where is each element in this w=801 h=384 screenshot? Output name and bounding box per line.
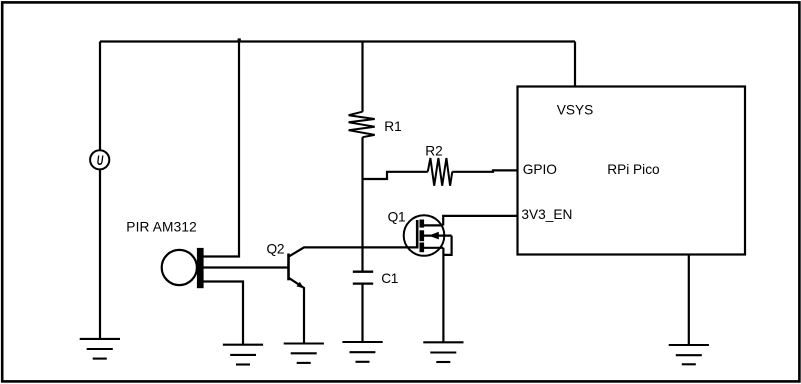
svg-text:U: U — [97, 153, 104, 168]
wire Q2 emitter down to ground — [289, 278, 305, 344]
wire Q1 bulk hook to source — [443, 236, 451, 255]
wire rail to R1 top — [361, 42, 363, 112]
ground G4 (below C1) — [342, 342, 382, 362]
resistor R1 — [349, 112, 375, 138]
wire PIR OUT (middle pin to Q2 base) — [204, 266, 289, 268]
svg-text:PIR AM312: PIR AM312 — [126, 219, 197, 234]
wire PIR VCC (top pin up to rail) — [204, 42, 240, 257]
svg-text:VSYS: VSYS — [557, 102, 594, 117]
ground G3 (below Q2 emitter) — [284, 344, 324, 363]
transistor Q2 base bar — [287, 254, 290, 281]
svg-text:Q2: Q2 — [267, 242, 285, 257]
wire Q1 source down to ground — [442, 248, 444, 342]
svg-text:3V3_EN: 3V3_EN — [521, 207, 572, 222]
resistor R2 — [428, 158, 453, 186]
ground G2 (below PIR) — [223, 345, 263, 365]
node junction at x=239 on top rail — [238, 38, 241, 41]
RPi Pico box — [518, 87, 746, 255]
wire R1 bottom to C1 top — [361, 137, 363, 272]
wire R2 right to GPIO pin — [452, 170, 517, 171]
wire left vertical upper (rail to source U) — [99, 42, 101, 151]
PIR AM312 sensor — [162, 248, 204, 288]
wire R2 left jog (from R1/C1 column) — [363, 172, 428, 179]
wire Q2 collector to Q1 gate — [289, 247, 418, 256]
wire top rail — [100, 40, 575, 42]
ground G5 (below Q1 source) — [423, 342, 463, 362]
ground G6 (below Pico) — [669, 345, 709, 364]
wire Pico GND pin down to ground — [688, 255, 690, 346]
svg-text:Q1: Q1 — [388, 209, 406, 224]
wire PIR GND (bottom pin down to ground) — [204, 282, 244, 345]
transistor Q1 (MOSFET) — [404, 215, 452, 256]
ground G1 (below source U) — [80, 339, 120, 359]
svg-text:R1: R1 — [384, 119, 402, 134]
wire C1 bottom to ground — [361, 284, 363, 342]
voltage source U1 — [90, 150, 109, 169]
wire Q1 drain to 3V3_EN pin — [443, 216, 517, 226]
svg-text:C1: C1 — [381, 271, 398, 286]
svg-text:RPi Pico: RPi Pico — [607, 162, 660, 177]
wire left vertical lower (source U to ground) — [99, 170, 101, 339]
capacitor C1 — [353, 272, 373, 284]
svg-text:GPIO: GPIO — [523, 162, 557, 177]
wire VSYS pin (rail down to Pico box) — [574, 42, 576, 87]
svg-text:R2: R2 — [425, 144, 443, 159]
